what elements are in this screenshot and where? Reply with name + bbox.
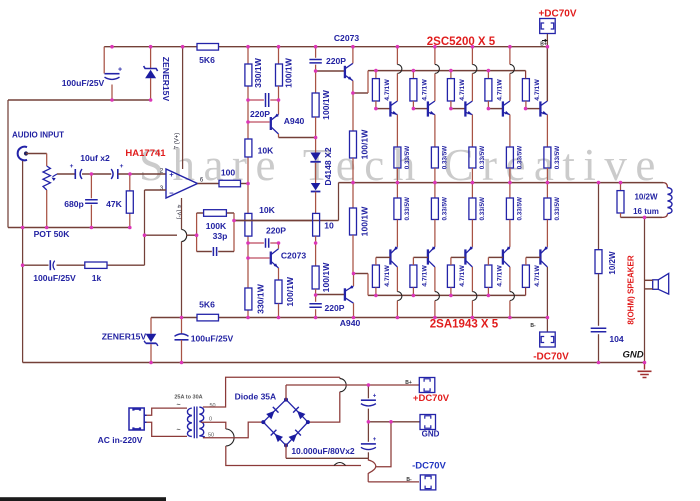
svg-text:100uF/25V: 100uF/25V	[191, 334, 234, 344]
svg-text:0.33/5W: 0.33/5W	[404, 197, 411, 221]
svg-text:B-: B-	[406, 477, 412, 483]
svg-text:1k: 1k	[92, 273, 102, 283]
svg-text:A940: A940	[340, 318, 361, 328]
svg-text:+: +	[373, 437, 377, 443]
svg-text:ZENER15V: ZENER15V	[161, 57, 171, 102]
svg-text:33p: 33p	[213, 231, 228, 241]
svg-text:+: +	[373, 394, 377, 400]
svg-text:220P: 220P	[324, 303, 344, 313]
svg-text:100K: 100K	[206, 221, 227, 231]
svg-text:10/2W: 10/2W	[634, 193, 658, 202]
svg-text:-DC70V: -DC70V	[533, 352, 569, 363]
svg-text:100uF/25V: 100uF/25V	[62, 78, 105, 88]
svg-text:4.7/1W: 4.7/1W	[534, 265, 541, 287]
svg-text:10: 10	[324, 221, 334, 231]
svg-text:16 tum: 16 tum	[633, 207, 659, 216]
svg-text:4.7/1W: 4.7/1W	[421, 79, 428, 101]
svg-text:ZENER15V: ZENER15V	[102, 332, 147, 342]
svg-text:+: +	[169, 170, 174, 179]
svg-text:0.33/5W: 0.33/5W	[442, 146, 449, 170]
svg-text:+DC70V: +DC70V	[413, 393, 450, 404]
svg-text:~: ~	[176, 427, 180, 434]
svg-text:100/1W: 100/1W	[321, 89, 331, 120]
svg-text:4.7/1W: 4.7/1W	[496, 265, 503, 287]
svg-text:2SA1943 X 5: 2SA1943 X 5	[430, 319, 499, 331]
svg-text:10K: 10K	[258, 146, 275, 156]
svg-text:7 (V+): 7 (V+)	[175, 133, 181, 150]
svg-text:A940: A940	[284, 116, 305, 126]
svg-text:4.7/1W: 4.7/1W	[384, 265, 391, 287]
svg-text:0.33/5W: 0.33/5W	[479, 197, 486, 221]
svg-text:220P: 220P	[250, 109, 270, 119]
svg-text:100/1W: 100/1W	[360, 129, 370, 160]
svg-text:10.000uF/80Vx2: 10.000uF/80Vx2	[291, 446, 355, 456]
svg-text:0.33/5W: 0.33/5W	[517, 146, 524, 170]
svg-text:4.7/1W: 4.7/1W	[459, 265, 466, 287]
svg-text:4.7/1W: 4.7/1W	[496, 79, 503, 101]
svg-text:8(OHM) SPEAKER: 8(OHM) SPEAKER	[627, 255, 636, 325]
svg-text:47K: 47K	[106, 199, 123, 209]
svg-text:4.7/1W: 4.7/1W	[459, 79, 466, 101]
svg-text:~: ~	[176, 402, 180, 409]
svg-text:-DC70V: -DC70V	[412, 461, 446, 472]
svg-text:220P: 220P	[326, 56, 346, 66]
svg-text:10K: 10K	[259, 205, 276, 215]
svg-text:+: +	[118, 67, 122, 74]
svg-text:GND: GND	[622, 350, 643, 361]
svg-text:Diode 35A: Diode 35A	[235, 392, 277, 402]
svg-text:0.33/5W: 0.33/5W	[554, 146, 561, 170]
svg-text:100: 100	[221, 168, 236, 178]
svg-text:C2073: C2073	[334, 33, 360, 43]
svg-text:0.33/5W: 0.33/5W	[479, 146, 486, 170]
svg-text:25A to 30A: 25A to 30A	[174, 395, 202, 401]
svg-text:+: +	[120, 163, 124, 170]
svg-text:100uF/25V: 100uF/25V	[33, 273, 76, 283]
svg-text:5K6: 5K6	[199, 55, 215, 65]
svg-text:100/1W: 100/1W	[284, 57, 294, 88]
svg-text:10/2W: 10/2W	[608, 251, 617, 275]
svg-text:4 (V-): 4 (V-)	[176, 205, 182, 220]
svg-text:POT 50K: POT 50K	[34, 229, 71, 239]
svg-text:+: +	[70, 163, 74, 170]
svg-text:5K6: 5K6	[199, 300, 215, 310]
svg-text:AC in-220V: AC in-220V	[98, 435, 143, 445]
svg-text:B-: B-	[530, 323, 536, 329]
svg-text:104: 104	[609, 334, 624, 344]
svg-text:D4148 X2: D4148 X2	[323, 147, 333, 185]
svg-text:4.7/1W: 4.7/1W	[421, 265, 428, 287]
svg-text:AUDIO INPUT: AUDIO INPUT	[12, 131, 64, 140]
svg-text:4.7/1W: 4.7/1W	[384, 79, 391, 101]
svg-text:−: −	[169, 189, 174, 198]
svg-text:HA17741: HA17741	[125, 148, 166, 159]
svg-text:C2073: C2073	[281, 251, 307, 261]
svg-text:330/1W: 330/1W	[253, 57, 263, 88]
svg-text:0.33/5W: 0.33/5W	[554, 197, 561, 221]
svg-text:100/1W: 100/1W	[321, 262, 331, 293]
svg-text:4.7/1W: 4.7/1W	[534, 79, 541, 101]
svg-text:50: 50	[209, 403, 215, 409]
svg-text:B+: B+	[405, 380, 412, 386]
svg-text:100/1W: 100/1W	[360, 206, 370, 237]
svg-text:0.33/5W: 0.33/5W	[442, 197, 449, 221]
svg-text:0.33/5W: 0.33/5W	[517, 197, 524, 221]
svg-text:0.33/5W: 0.33/5W	[404, 146, 411, 170]
svg-text:+DC70V: +DC70V	[538, 9, 576, 20]
svg-text:GND: GND	[422, 430, 440, 439]
svg-text:10uf x2: 10uf x2	[80, 153, 110, 163]
svg-text:2SC5200 X 5: 2SC5200 X 5	[427, 36, 496, 48]
svg-text:220P: 220P	[266, 226, 286, 236]
svg-text:100/1W: 100/1W	[285, 276, 295, 307]
svg-text:680p: 680p	[64, 199, 84, 209]
svg-text:330/1W: 330/1W	[256, 283, 266, 314]
